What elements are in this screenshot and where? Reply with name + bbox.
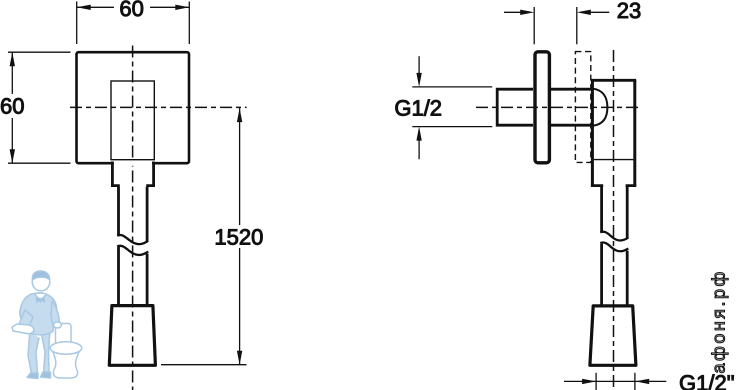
- arrow right: [175, 5, 189, 10]
- wrench: [12, 324, 34, 334]
- centerline horizontal front: [70, 106, 247, 108]
- arrow down G1/2: [416, 73, 421, 87]
- outlet boss below plate right: [146, 162, 153, 186]
- dimension G1/2 inch bottom: dimension line: [564, 380, 666, 382]
- centerline horizontal side: [476, 106, 639, 108]
- svg-text:G1/2": G1/2": [679, 371, 735, 390]
- svg-text:23: 23: [617, 0, 641, 23]
- plumber body jacket: [20, 293, 57, 335]
- hose wall right front: [146, 187, 149, 306]
- inner rectangle (outlet seen through plate): [111, 81, 154, 160]
- thread arc inside body: [593, 89, 608, 126]
- hair: [32, 271, 49, 280]
- plumber head: [32, 273, 50, 291]
- dimension line 60 top: [77, 6, 190, 8]
- arrow up: [10, 52, 15, 66]
- body thin separator: [594, 159, 634, 161]
- dimension 1520: dimension line: [239, 108, 241, 365]
- hidden wall position dashed rectangle: [575, 52, 590, 163]
- extension line bottom: [412, 126, 492, 128]
- hose break squiggle side upper: [600, 232, 628, 241]
- conical handle front: [109, 306, 155, 366]
- svg-text:афоня.рф: афоня.рф: [709, 269, 729, 373]
- body bottom ledges: [591, 184, 636, 187]
- gap in plate bottom edge: [114, 161, 152, 166]
- right hand: [54, 322, 62, 328]
- dimension line 23 right part: [590, 11, 609, 13]
- hose wall right side view: [626, 187, 629, 306]
- arrow left: [77, 5, 91, 10]
- dimension line 23 left part: [504, 11, 521, 13]
- toilet pedestal: [53, 352, 79, 378]
- inlet stub G1/2: [497, 89, 533, 125]
- plumber right arm to tank: [51, 301, 60, 326]
- centerline vertical side: [613, 50, 615, 390]
- arrow 23 right: [577, 10, 591, 15]
- hose break squiggle front upper: [117, 235, 148, 244]
- extension tick right: [634, 373, 636, 390]
- centerline vertical front: [132, 46, 134, 390]
- plumber legs: [28, 330, 39, 374]
- G1/2 callout: extension line top: [412, 86, 492, 88]
- plumber shirt and lapels: [35, 294, 46, 302]
- hose wall left side view: [600, 187, 603, 306]
- body top edge: [591, 79, 636, 82]
- arrow down 1520: [237, 351, 242, 365]
- hose break squiggle front lower: [117, 246, 148, 255]
- extension tick left: [595, 373, 597, 390]
- wall flange side: [535, 52, 549, 163]
- dimension 60 top: extension line left: [76, 2, 78, 45]
- hose break squiggle side lower: [600, 242, 628, 251]
- plumber left arm with wrench: [18, 310, 33, 332]
- elbow body: [592, 80, 634, 185]
- arrow down: [10, 149, 15, 163]
- extension line bottom 1520: [161, 364, 247, 366]
- extension line right: [188, 2, 190, 45]
- arrow right G1/2 inch: [635, 379, 649, 384]
- arrow 23 left: [520, 10, 534, 15]
- dimension 60 left: extension line top: [8, 51, 71, 53]
- toilet tank: [56, 324, 72, 351]
- extension line bottom: [8, 162, 71, 164]
- outlet boss below plate left: [112, 162, 119, 186]
- bow tie: [37, 297, 45, 302]
- arrow left G1/2 inch: [582, 379, 596, 384]
- neck between flange and body: [551, 89, 592, 125]
- toilet bowl rim: [50, 342, 82, 354]
- extension line right: [576, 7, 578, 44]
- conical handle side: [590, 306, 636, 365]
- arrow shaft down: [418, 56, 420, 73]
- arrow up G1/2: [416, 127, 421, 141]
- arrow up 1520: [237, 108, 242, 122]
- svg-text:1520: 1520: [214, 225, 263, 250]
- dimension line 60 left: [11, 52, 13, 163]
- shoes: [27, 373, 38, 379]
- dimension 23: extension line left: [533, 7, 535, 44]
- wall plate square 60x60: [77, 52, 190, 163]
- svg-text:60: 60: [0, 94, 24, 119]
- watermark logo plumber with toilet: [12, 271, 82, 379]
- svg-text:60: 60: [119, 0, 143, 21]
- arrow shaft up: [418, 140, 420, 159]
- svg-text:G1/2: G1/2: [394, 95, 442, 120]
- hose wall left front: [117, 187, 120, 306]
